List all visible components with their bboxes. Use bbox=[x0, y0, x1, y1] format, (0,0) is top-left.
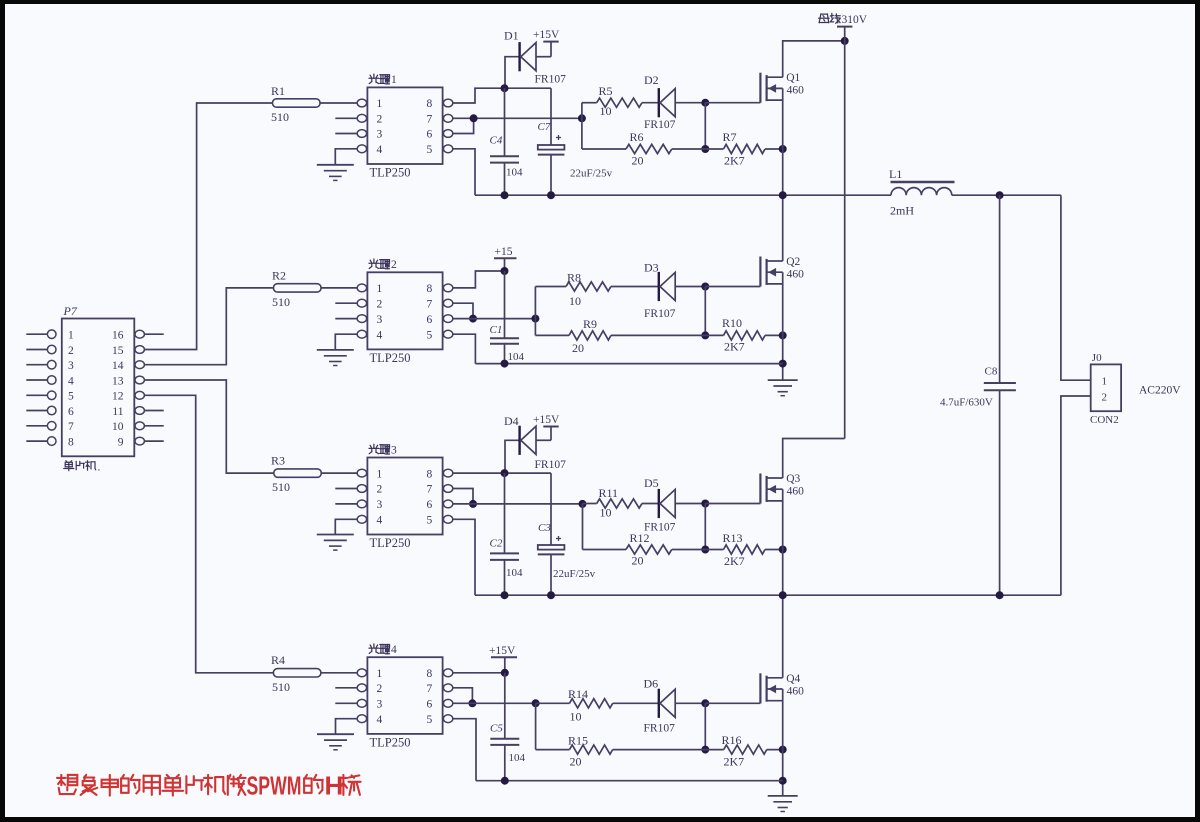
power +15V (ch3) bbox=[533, 414, 560, 440]
svg-text:+15V: +15V bbox=[533, 29, 560, 41]
svg-text:2: 2 bbox=[1102, 392, 1108, 404]
wire D3 junction vertical bbox=[704, 287, 706, 336]
svg-text:3: 3 bbox=[377, 499, 383, 511]
svg-text:4: 4 bbox=[68, 375, 74, 387]
capacitor C4 104 bbox=[490, 88, 524, 195]
junction node B C8 bottom bbox=[996, 591, 1004, 599]
optocoupler U4 TLP250 光耦4 bbox=[335, 644, 453, 750]
svg-text:6: 6 bbox=[427, 129, 433, 141]
svg-text:7: 7 bbox=[427, 114, 433, 126]
junction D5 out bbox=[701, 500, 709, 508]
resistor R10 2K7 bbox=[705, 316, 782, 354]
label 单片机 bbox=[64, 461, 101, 474]
svg-text:R3: R3 bbox=[271, 454, 285, 468]
transistor Q4 460 bbox=[760, 673, 804, 704]
svg-text:R1: R1 bbox=[271, 84, 285, 98]
capacitor C8 4.7uF/630V bbox=[940, 195, 1016, 595]
svg-text:7: 7 bbox=[427, 484, 433, 496]
junction pin6/7 tie (ch4) bbox=[468, 699, 476, 707]
junction C8 top bbox=[996, 191, 1004, 199]
junction R9/R10 bbox=[701, 331, 709, 339]
svg-text:2K7: 2K7 bbox=[724, 154, 745, 168]
svg-text:104: 104 bbox=[506, 167, 523, 179]
resistor R11 10 bbox=[583, 486, 659, 520]
wire output to J0 pin1 bbox=[1061, 195, 1091, 380]
wire R1 to opto1 pin1 bbox=[320, 102, 357, 104]
junction R13 at Q3 source bbox=[779, 546, 787, 554]
junction R16 at Q4 source bbox=[779, 746, 787, 754]
svg-text:D2: D2 bbox=[644, 73, 659, 87]
svg-text:TLP250: TLP250 bbox=[370, 166, 411, 180]
svg-text:+15V: +15V bbox=[489, 645, 516, 657]
svg-text:510: 510 bbox=[272, 295, 290, 309]
wire ch2 bottom rail bbox=[475, 363, 782, 365]
wire L1 to output bbox=[952, 194, 1061, 196]
svg-text:10: 10 bbox=[569, 294, 581, 308]
svg-text:510: 510 bbox=[271, 110, 289, 124]
power +15V (ch1) bbox=[533, 29, 560, 57]
junction node B C3 bottom bbox=[547, 591, 555, 599]
svg-text:104: 104 bbox=[509, 752, 526, 764]
junction gate feed (ch4) bbox=[532, 699, 540, 707]
resistor R1 510 bbox=[271, 84, 320, 124]
svg-text:460: 460 bbox=[787, 269, 805, 281]
svg-text:D6: D6 bbox=[644, 677, 659, 691]
resistor R5 10 bbox=[582, 84, 659, 118]
svg-text:7: 7 bbox=[427, 683, 433, 695]
svg-text:R16: R16 bbox=[722, 733, 742, 747]
svg-text:Q4: Q4 bbox=[786, 673, 800, 685]
svg-text:R7: R7 bbox=[723, 130, 737, 144]
wire pin11 stub bbox=[144, 410, 163, 412]
transistor Q1 460 bbox=[760, 72, 804, 103]
svg-text:2: 2 bbox=[68, 345, 74, 357]
svg-text:AC220V: AC220V bbox=[1139, 385, 1181, 397]
svg-text:13: 13 bbox=[112, 375, 124, 387]
svg-text:D4: D4 bbox=[504, 414, 519, 428]
svg-text:104: 104 bbox=[508, 351, 525, 363]
svg-text:20: 20 bbox=[632, 154, 644, 168]
optocoupler U1 TLP250 光耦1 bbox=[335, 74, 453, 180]
junction pin6/7 tie (ch3) bbox=[469, 500, 477, 508]
ground (main, Q4 source) bbox=[768, 796, 798, 812]
junction D3 out bbox=[701, 283, 709, 291]
svg-text:6: 6 bbox=[427, 499, 433, 511]
wire Q4 source down bbox=[782, 689, 784, 795]
wire pin14 to R2 bbox=[144, 288, 273, 365]
wire ch4 bottom rail bbox=[476, 780, 783, 782]
capacitor C3 22uF/25v (electrolytic) bbox=[538, 473, 596, 595]
wire R2 to opto2 pin1 bbox=[321, 287, 357, 289]
svg-text:1: 1 bbox=[377, 468, 383, 480]
svg-text:R14: R14 bbox=[568, 687, 588, 701]
wire opto3 pin8 supply rail bbox=[453, 472, 551, 474]
svg-text:3: 3 bbox=[377, 129, 383, 141]
wire gate-feed vertical bbox=[581, 103, 583, 149]
svg-text:20: 20 bbox=[572, 341, 584, 355]
svg-text:20: 20 bbox=[632, 554, 644, 568]
transistor Q3 460 bbox=[760, 473, 804, 504]
ground (opto4 pin4) bbox=[317, 719, 357, 750]
wire opto3 pin5 down bbox=[453, 519, 475, 595]
wire opto4 pin8 to +15V bbox=[453, 672, 505, 674]
wire Q2 drain to node A bbox=[782, 195, 784, 261]
svg-text:C4: C4 bbox=[490, 135, 503, 147]
wire opto1 pin6 join bbox=[453, 118, 474, 133]
junction C5 bottom bbox=[501, 777, 509, 785]
svg-text:4: 4 bbox=[377, 329, 383, 341]
svg-text:R9: R9 bbox=[583, 317, 597, 331]
junction node A C4 bottom bbox=[501, 191, 509, 199]
svg-text:15: 15 bbox=[112, 345, 124, 357]
wire gate to Q2 bbox=[705, 286, 760, 288]
svg-text:1: 1 bbox=[68, 330, 74, 342]
svg-text:460: 460 bbox=[787, 85, 805, 97]
svg-text:FR107: FR107 bbox=[644, 723, 676, 735]
svg-text:R8: R8 bbox=[567, 271, 581, 285]
wire Q1 source down bbox=[782, 88, 784, 195]
svg-text:2mH: 2mH bbox=[890, 204, 914, 218]
svg-text:460: 460 bbox=[787, 486, 805, 498]
svg-text:R5: R5 bbox=[599, 84, 613, 98]
svg-text:310V: 310V bbox=[842, 14, 868, 26]
wire D2 junction vertical bbox=[704, 103, 706, 149]
svg-text:R11: R11 bbox=[599, 486, 619, 500]
capacitor C2 104 bbox=[490, 473, 524, 595]
svg-text:1: 1 bbox=[391, 74, 397, 86]
svg-text:FR107: FR107 bbox=[535, 459, 567, 471]
optocoupler U3 TLP250 光耦3 bbox=[335, 444, 453, 550]
svg-text:3: 3 bbox=[391, 444, 397, 456]
svg-text:FR107: FR107 bbox=[535, 74, 567, 86]
diode D2 FR107 bbox=[644, 73, 705, 131]
svg-text:1: 1 bbox=[377, 668, 383, 680]
svg-text:2: 2 bbox=[377, 298, 383, 310]
svg-text:TLP250: TLP250 bbox=[370, 536, 411, 550]
svg-text:FR107: FR107 bbox=[644, 308, 676, 320]
wire Q1 drain to bus bbox=[783, 41, 845, 77]
junction +15/C1 bbox=[501, 267, 509, 275]
wire J0 pin2 to node B bbox=[1061, 396, 1091, 595]
svg-text:TLP250: TLP250 bbox=[370, 351, 411, 365]
svg-text:C8: C8 bbox=[985, 366, 998, 378]
wire opto2 pin5 down bbox=[453, 334, 476, 363]
svg-text:D1: D1 bbox=[504, 29, 519, 43]
junction node B Q3/Q4 bbox=[779, 591, 787, 599]
svg-text:1: 1 bbox=[377, 283, 383, 295]
resistor R9 20 bbox=[535, 317, 705, 355]
junction bus tap bbox=[841, 37, 849, 45]
svg-text:L1: L1 bbox=[889, 167, 902, 181]
resistor R12 20 bbox=[583, 531, 706, 568]
junction R12/R13 bbox=[701, 546, 709, 554]
junction D4 cathode bbox=[501, 469, 509, 477]
wire Q3 drain from bus elbow bbox=[783, 439, 845, 479]
svg-text:12: 12 bbox=[112, 391, 124, 403]
junction +15V/C5 bbox=[501, 669, 509, 677]
wire gate to Q4 bbox=[705, 702, 760, 704]
svg-text:510: 510 bbox=[272, 480, 290, 494]
svg-text:C2: C2 bbox=[490, 538, 503, 550]
svg-text:22uF/25v: 22uF/25v bbox=[553, 568, 596, 580]
svg-text:5: 5 bbox=[427, 714, 433, 726]
svg-text:.: . bbox=[98, 462, 101, 474]
wire gate-feed vertical (ch2) bbox=[534, 287, 536, 336]
svg-text:2K7: 2K7 bbox=[724, 554, 745, 568]
inductor L1 2mH bbox=[889, 167, 955, 218]
transistor Q2 460 bbox=[760, 256, 804, 287]
optocoupler U2 TLP250 光耦2 bbox=[335, 259, 453, 365]
svg-text:16: 16 bbox=[112, 330, 124, 342]
junction R10 at Q2 source bbox=[779, 331, 787, 339]
wire opto2 pin7 join bbox=[453, 303, 473, 318]
svg-text:2K7: 2K7 bbox=[724, 755, 745, 769]
wire R3 to opto3 pin1 bbox=[321, 472, 357, 474]
svg-text:10: 10 bbox=[600, 506, 612, 520]
svg-text:+15V: +15V bbox=[533, 414, 560, 426]
power bus 母线310V bbox=[819, 13, 868, 438]
wire gate-feed vertical (ch3) bbox=[582, 504, 584, 550]
wire D5 junction vertical bbox=[704, 504, 706, 550]
junction gate feed (ch2) bbox=[531, 315, 539, 323]
ground (opto3 pin4) bbox=[317, 519, 357, 550]
ground (opto1 pin4) bbox=[317, 149, 357, 181]
svg-text:Q2: Q2 bbox=[786, 256, 800, 268]
svg-text:2: 2 bbox=[377, 683, 383, 695]
junction R6/R7 bbox=[701, 145, 709, 153]
resistor R2 510 bbox=[272, 269, 321, 310]
diode D1 FR107 bbox=[504, 29, 566, 89]
wire pin13 to R3 bbox=[144, 380, 273, 473]
svg-text:5: 5 bbox=[68, 391, 74, 403]
diode D3 FR107 bbox=[644, 261, 705, 321]
wire Q2 source down bbox=[782, 272, 784, 379]
junction R15/R16 bbox=[701, 746, 709, 754]
svg-text:7: 7 bbox=[427, 298, 433, 310]
svg-text:+15: +15 bbox=[495, 246, 513, 258]
label AC220V bbox=[1139, 385, 1181, 397]
wire pin12 to R4 bbox=[144, 395, 273, 673]
connector P7 (16-pin header to MCU) bbox=[26, 304, 144, 456]
svg-text:10: 10 bbox=[112, 421, 124, 433]
svg-text:510: 510 bbox=[272, 680, 290, 694]
svg-text:8: 8 bbox=[427, 98, 433, 110]
svg-text:6: 6 bbox=[427, 699, 433, 711]
ground (opto2 pin4) bbox=[317, 334, 357, 365]
svg-text:2: 2 bbox=[377, 114, 383, 126]
svg-text:R2: R2 bbox=[272, 269, 286, 283]
wire opto1 pin8 supply rail bbox=[453, 88, 551, 103]
svg-text:Q1: Q1 bbox=[786, 72, 800, 84]
svg-text:7: 7 bbox=[68, 421, 74, 433]
resistor R14 10 bbox=[536, 687, 659, 724]
resistor R16 2K7 bbox=[705, 733, 782, 769]
wire gate to Q1 bbox=[705, 102, 760, 104]
junction R7 at Q1 source bbox=[779, 145, 787, 153]
svg-text:460: 460 bbox=[787, 685, 805, 697]
resistor R15 20 bbox=[536, 734, 706, 769]
wire opto2 pin8 to +15 bbox=[453, 271, 505, 288]
wire pin15 to R1 bbox=[144, 103, 272, 350]
capacitor C5 104 bbox=[490, 673, 526, 781]
resistor R8 10 bbox=[535, 271, 658, 309]
wire pin9 stub bbox=[144, 440, 163, 442]
wire opto1 pin7 bbox=[453, 117, 582, 119]
svg-text:D5: D5 bbox=[644, 476, 659, 490]
junction ch4 rail bbox=[779, 777, 787, 785]
svg-text:10: 10 bbox=[570, 710, 582, 724]
svg-text:1: 1 bbox=[1102, 376, 1108, 388]
svg-text:P7: P7 bbox=[63, 304, 78, 318]
wire opto4 pin7 join bbox=[453, 688, 473, 704]
resistor R4 510 bbox=[271, 653, 321, 694]
junction node A C7 bottom bbox=[547, 191, 555, 199]
diode D6 FR107 bbox=[644, 677, 706, 735]
svg-text:9: 9 bbox=[118, 436, 124, 448]
svg-text:R10: R10 bbox=[722, 316, 742, 330]
junction D1 cathode bbox=[501, 84, 509, 92]
svg-text:22uF/25v: 22uF/25v bbox=[570, 168, 613, 180]
svg-text:4: 4 bbox=[391, 644, 397, 656]
wire opto4 pin6 bbox=[453, 702, 536, 704]
svg-text:D3: D3 bbox=[644, 261, 659, 275]
junction pin6/7 tie (ch2) bbox=[469, 315, 477, 323]
wire opto4 pin5 down bbox=[453, 719, 476, 781]
svg-text:R6: R6 bbox=[630, 130, 644, 144]
svg-text:2: 2 bbox=[391, 259, 397, 271]
resistor R3 510 bbox=[271, 454, 321, 495]
svg-text:4: 4 bbox=[377, 515, 383, 527]
junction gate feed (ch3) bbox=[579, 500, 587, 508]
svg-text:1: 1 bbox=[377, 98, 383, 110]
svg-text:J0: J0 bbox=[1092, 352, 1102, 364]
svg-text:C5: C5 bbox=[490, 723, 503, 735]
wire node B rail (half-bridge 2 output) bbox=[475, 594, 1061, 596]
svg-text:3: 3 bbox=[377, 314, 383, 326]
svg-text:8: 8 bbox=[427, 283, 433, 295]
wire gate to Q3 bbox=[705, 503, 760, 505]
svg-text:4: 4 bbox=[377, 714, 383, 726]
svg-text:2: 2 bbox=[377, 484, 383, 496]
power +15V (ch4) bbox=[489, 645, 517, 673]
wire gate-feed vertical (ch4) bbox=[535, 703, 537, 749]
wire opto3 pin7 join bbox=[453, 489, 473, 504]
resistor R7 2K7 bbox=[705, 130, 782, 168]
svg-text:6: 6 bbox=[68, 406, 74, 418]
wire opto3 pin6 bbox=[453, 503, 583, 505]
junction node B C2 bottom bbox=[501, 591, 509, 599]
junction gate feed bbox=[578, 114, 586, 122]
svg-text:R12: R12 bbox=[630, 531, 650, 545]
svg-text:4.7uF/630V: 4.7uF/630V bbox=[940, 397, 993, 409]
ground (Q2 source) bbox=[768, 380, 798, 396]
svg-text:C1: C1 bbox=[490, 324, 503, 336]
svg-text:Q3: Q3 bbox=[786, 473, 800, 485]
svg-text:R4: R4 bbox=[271, 653, 285, 667]
svg-text:5: 5 bbox=[427, 144, 433, 156]
wire pin10 stub bbox=[144, 425, 163, 427]
caption 想象中的用单片机做SPWM的H桥 (red) bbox=[57, 771, 361, 801]
svg-text:20: 20 bbox=[570, 755, 582, 769]
diode D4 FR107 bbox=[504, 414, 566, 473]
wire node A rail (half-bridge 1 output) bbox=[475, 194, 891, 196]
svg-text:C7: C7 bbox=[538, 121, 551, 133]
svg-text:104: 104 bbox=[506, 567, 523, 579]
junction node A Q1/Q2 bbox=[779, 191, 787, 199]
wire Q3 source down to Q4 bbox=[782, 489, 784, 678]
capacitor C1 104 bbox=[490, 271, 525, 364]
diode D5 FR107 bbox=[644, 476, 705, 534]
svg-text:R13: R13 bbox=[723, 531, 743, 545]
svg-text:C3: C3 bbox=[538, 522, 551, 534]
junction C1 bottom bbox=[501, 360, 509, 368]
resistor R6 20 bbox=[582, 130, 705, 168]
junction D6 out bbox=[701, 699, 709, 707]
svg-text:11: 11 bbox=[112, 406, 123, 418]
wire opto1 pin5 down bbox=[453, 149, 475, 195]
wire D6 junction vertical bbox=[704, 703, 706, 749]
svg-text:R15: R15 bbox=[568, 734, 588, 748]
wire R4 to opto4 pin1 bbox=[321, 672, 357, 674]
resistor R13 2K7 bbox=[705, 531, 782, 568]
junction D2 out bbox=[701, 99, 709, 107]
svg-text:SPWM: SPWM bbox=[247, 771, 302, 801]
svg-text:8: 8 bbox=[427, 468, 433, 480]
svg-text:FR107: FR107 bbox=[644, 119, 676, 131]
junction pin6/7 tie bbox=[470, 114, 478, 122]
svg-text:5: 5 bbox=[427, 515, 433, 527]
svg-text:8: 8 bbox=[427, 668, 433, 680]
svg-text:5: 5 bbox=[427, 329, 433, 341]
svg-text:CON2: CON2 bbox=[1090, 414, 1119, 426]
svg-text:4: 4 bbox=[377, 144, 383, 156]
wire opto2 pin6 bbox=[453, 318, 536, 320]
svg-text:3: 3 bbox=[68, 360, 74, 372]
capacitor C7 22uF/25v (electrolytic) bbox=[538, 88, 613, 195]
svg-text:2K7: 2K7 bbox=[724, 340, 745, 354]
svg-text:3: 3 bbox=[377, 699, 383, 711]
svg-text:TLP250: TLP250 bbox=[370, 736, 411, 750]
connector J0 CON2 bbox=[1090, 352, 1121, 426]
junction ch2 rail bbox=[779, 360, 787, 368]
power +15 (ch2) bbox=[494, 246, 517, 271]
svg-text:10: 10 bbox=[600, 104, 612, 118]
wire pin16 stub bbox=[144, 333, 163, 335]
svg-text:8: 8 bbox=[68, 436, 74, 448]
svg-text:14: 14 bbox=[112, 360, 124, 372]
svg-text:6: 6 bbox=[427, 314, 433, 326]
